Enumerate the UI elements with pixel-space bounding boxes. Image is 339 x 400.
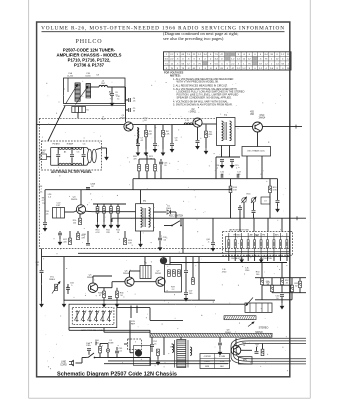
- feed drop 2: [146, 171, 148, 179]
- Q3 emitter drop to osc coil: [257, 132, 259, 147]
- R50 lower lead: [261, 285, 263, 300]
- stub into connector strip: [149, 330, 151, 333]
- resistor R34: [116, 291, 119, 298]
- scan noise speckle: [41, 81, 288, 373]
- resistor R40: [192, 278, 195, 285]
- tuner chassis dashed box left edge: [38, 118, 40, 248]
- capacitor C15: [230, 160, 234, 162]
- R57 lower lead: [157, 356, 159, 359]
- main RF bus wire left segment: [37, 124, 124, 126]
- svg-text:SPEAKER CONDENSER. NO SIGNAL A: SPEAKER CONDENSER. NO SIGNAL APPLIED.: [177, 96, 233, 99]
- resistor R13 lower lead: [117, 213, 119, 222]
- wire exit panel right: [102, 147, 107, 149]
- divider rail 3 to next page: [272, 292, 306, 294]
- ladder vertical 1 lower: [57, 157, 59, 165]
- oscillator coil box L5: [242, 147, 271, 157]
- capacitor C41: [211, 243, 215, 245]
- wire tuner to antenna panel: [48, 106, 65, 141]
- wire L4 to Q1 drop: [107, 86, 125, 88]
- capacitor C52: [150, 345, 154, 347]
- R54 lower lead: [299, 288, 301, 293]
- ground below R3: [144, 150, 147, 156]
- R20 upper lead: [138, 159, 140, 164]
- control box wire to connector: [117, 303, 245, 305]
- switch S1 contact: [94, 357, 96, 359]
- VC1 wiper arrow: [242, 197, 247, 203]
- C62 upper lead: [256, 347, 258, 351]
- network drop 2: [281, 263, 283, 278]
- IF transformer T5 can: [136, 204, 154, 231]
- capacitor C26: [252, 211, 256, 213]
- detector diode D1: [167, 210, 170, 214]
- loop antenna transformer right loop: [92, 149, 96, 163]
- left audio vertical 1: [130, 306, 132, 319]
- svg-text:ANTENNA FILTER PANEL: ANTENNA FILTER PANEL: [51, 170, 92, 174]
- tuner sub box: [72, 107, 86, 113]
- C60 lower lead: [88, 351, 90, 355]
- scan page right edge: [309, 0, 311, 398]
- resistor R22 feed: [154, 164, 157, 171]
- svg-text:S2: S2: [255, 233, 259, 237]
- C33 upper lead: [67, 284, 69, 288]
- S2 contact pair 8: [273, 233, 275, 255]
- power wire drop: [149, 358, 151, 366]
- S2 contact pair 10: [286, 233, 288, 255]
- loop antenna transformer left loop: [88, 149, 92, 163]
- S2 contact pair 2: [234, 233, 236, 255]
- capacitor C3A ladder: [82, 155, 86, 157]
- audio board top rail wire: [78, 252, 290, 254]
- svg-text:GRN: GRN: [205, 366, 210, 368]
- antenna panel top wire: [51, 147, 87, 149]
- bottom long wire 1: [108, 360, 231, 362]
- capacitor C7: [136, 144, 140, 146]
- S2 lead down 2: [234, 255, 236, 262]
- Q8 collector wire: [235, 338, 237, 345]
- ladder vertical 1 upper: [57, 148, 59, 154]
- Q2 emitter drop: [197, 127, 199, 140]
- wire Q5 to Q6: [98, 287, 112, 289]
- C61 lower lead: [116, 354, 118, 358]
- wire C41 drop: [212, 218, 214, 242]
- wire T4 area down to B+ bus: [215, 157, 217, 179]
- ground below C25: [58, 239, 61, 245]
- resistor R51: [271, 285, 274, 292]
- stereo jack hatched strip: [224, 316, 256, 320]
- capacitor C44: [184, 271, 188, 273]
- wire Q6 to Q7: [134, 281, 156, 283]
- T5 top feed wire: [140, 190, 142, 204]
- C23 lower lead: [160, 165, 162, 179]
- S2 contact pair 9: [279, 233, 281, 255]
- divider rail 2: [262, 284, 292, 286]
- audio ground bus wire: [64, 299, 215, 301]
- capacitor C31: [40, 271, 44, 273]
- S2 lead down 5: [267, 255, 269, 262]
- capacitor C14: [220, 160, 224, 162]
- resistor R37 inside block: [173, 270, 176, 277]
- ground below C47: [184, 295, 187, 301]
- C27 upper lead: [239, 205, 241, 207]
- variable capacitor C1A rotor arrow: [66, 85, 78, 105]
- resistor R36 inside block: [168, 270, 171, 277]
- left T7 area drop: [151, 337, 153, 344]
- T7 primary side loops: [172, 344, 174, 352]
- control pot 2: [81, 310, 86, 322]
- lamp stem: [163, 256, 165, 259]
- resistor R22: [69, 238, 72, 245]
- ground below R34: [115, 301, 118, 307]
- title underline: [42, 31, 285, 33]
- R24 upper lead: [124, 231, 126, 238]
- resistor R54: [299, 281, 302, 288]
- ladder vertical 3 lower: [83, 157, 85, 165]
- C28 lower lead: [277, 203, 279, 206]
- resistor R10 bias network: [96, 207, 99, 214]
- osc coil left lead down: [246, 156, 248, 179]
- transistor Q8 power regulator: [231, 346, 241, 356]
- line cord riser: [81, 358, 83, 364]
- T7 left lead wire: [163, 337, 165, 355]
- R4 lower lead: [162, 137, 164, 150]
- wire R22 drop: [69, 231, 71, 238]
- T4 secondary winding: [230, 121, 232, 141]
- wire Q4 to T5: [92, 211, 136, 213]
- AGC switch wire: [164, 225, 172, 227]
- R40 upper lead: [192, 257, 194, 278]
- bias drop 2: [103, 204, 105, 207]
- line cord wire: [76, 362, 83, 364]
- Q6 to T6 wire: [130, 270, 141, 272]
- ground below T5: [139, 241, 142, 247]
- wire drop C9: [171, 125, 173, 143]
- wire S1 to fuse: [95, 357, 109, 359]
- T7 top lead: [180, 337, 182, 339]
- ground below C11: [196, 143, 199, 149]
- transistor Q4 second converter: [76, 205, 85, 214]
- control panel solid box: [69, 304, 117, 327]
- tuner chassis dashed box top edge: [39, 117, 216, 119]
- S2 inner frame: [226, 237, 290, 252]
- svg-text:OSC TRANS COIL: OSC TRANS COIL: [247, 149, 266, 152]
- network drop 1: [261, 263, 263, 278]
- gang inner wire: [67, 78, 69, 92]
- S2 lead down 3: [247, 255, 249, 262]
- svg-text:7%: 7%: [42, 203, 45, 205]
- resistor R19: [269, 186, 272, 193]
- resistor R11 bias network: [103, 207, 106, 214]
- transistor Q3 IF amp: [253, 122, 263, 132]
- C22 inner lines: [57, 208, 61, 219]
- capacitor C36: [108, 297, 112, 299]
- diode output wire: [170, 211, 176, 213]
- R33 upper lead: [103, 288, 105, 291]
- Q4 collector wire: [80, 190, 82, 205]
- transistor Q5 audio driver: [88, 283, 98, 293]
- ground below C64: [218, 349, 221, 355]
- svg-text:7.5: 7.5: [117, 98, 120, 100]
- capacitor C30: [86, 243, 90, 245]
- ground below C14: [220, 162, 223, 168]
- resistor R18: [229, 186, 232, 193]
- volume pot R30: [55, 284, 58, 291]
- R34 lower lead: [116, 298, 118, 301]
- drop R19 lower: [269, 193, 271, 219]
- T4 core lines: [225, 122, 227, 140]
- svg-text:Schematic Diagram P2507 Code 1: Schematic Diagram P2507 Code 12N Chassis: [57, 371, 177, 377]
- wire drop C5A: [111, 87, 113, 93]
- tuner sub box stripes: [75, 107, 82, 113]
- S2 lead down 8: [286, 255, 288, 262]
- antenna coil L7 hanging loops top: [73, 148, 82, 150]
- divider rail 1 to next page: [255, 277, 306, 279]
- ladder vertical 2 lower: [71, 157, 73, 165]
- svg-text:8 OHM: 8 OHM: [219, 356, 225, 358]
- second bottom wire: [104, 331, 150, 333]
- tuning coil column 2 laminated: [86, 84, 91, 98]
- C23 upper lead: [160, 159, 162, 161]
- S2 lead down 6: [273, 255, 275, 262]
- R53 upper lead: [291, 278, 293, 286]
- audio board second rail wire: [42, 256, 290, 258]
- S2 contact pair 4: [247, 233, 249, 255]
- transistor Q2 converter: [193, 118, 202, 127]
- svg-text:250: 250: [73, 222, 76, 224]
- ground below C9: [170, 146, 173, 152]
- svg-text:4.7K: 4.7K: [95, 232, 100, 234]
- capacitor C61: [115, 351, 119, 353]
- power wire to T7 area: [108, 357, 150, 359]
- AGC switch blade: [172, 221, 180, 226]
- R22 upper lead: [154, 159, 156, 164]
- resistor R21 feed: [146, 164, 149, 171]
- tick on AGC bus exit: [296, 216, 298, 220]
- capacitor C28: [276, 201, 280, 203]
- wire drop C8: [154, 125, 156, 143]
- drop R19 upper: [269, 179, 271, 186]
- T5 primary winding: [141, 208, 143, 228]
- connector block J1: [245, 303, 272, 312]
- ground below R10: [96, 222, 99, 228]
- ground below R33: [102, 301, 105, 307]
- S2 contact pair 5: [254, 233, 256, 255]
- drop R18 upper: [230, 179, 232, 186]
- VC2 lead down: [253, 202, 255, 210]
- svg-text:1MEG: 1MEG: [49, 279, 55, 281]
- driver transformer T6: [140, 266, 151, 279]
- volume control VC1: [242, 198, 246, 202]
- ground below C28: [276, 206, 279, 212]
- svg-text:3.3K: 3.3K: [273, 189, 278, 191]
- level shift wire: [111, 282, 113, 288]
- right inner drop wire: [277, 179, 279, 200]
- right drop lower: [185, 273, 187, 292]
- capacitor C3 ladder: [70, 155, 74, 157]
- capacitor C28A on bus: [86, 187, 90, 189]
- control wire across: [150, 319, 183, 321]
- ground below R11: [102, 222, 105, 228]
- capacitor C60 line filter: [87, 349, 91, 351]
- left feed wire upper: [41, 249, 43, 271]
- long right drop wire: [198, 257, 200, 301]
- bus drop to switch at x240: [239, 218, 241, 231]
- resistor R53: [291, 285, 294, 292]
- resistor R24: [124, 238, 127, 245]
- coil T3 vertical secondary: [137, 128, 139, 139]
- filter block C22: [53, 208, 65, 219]
- R34 upper lead: [116, 288, 118, 291]
- Q5 collector wire: [92, 276, 94, 283]
- T4 pri lower lead: [221, 146, 223, 158]
- capacitor C33: [66, 288, 70, 290]
- capacitor C2 ladder: [56, 155, 60, 157]
- voltage table grid: [164, 52, 292, 70]
- C7 lower lead: [137, 145, 139, 149]
- bus drop to switch at x268: [267, 218, 269, 231]
- svg-text:HI AMP: HI AMP: [67, 143, 74, 146]
- second IF bus wire: [45, 189, 232, 191]
- svg-text:2N411: 2N411: [190, 112, 197, 114]
- control box wire 2: [117, 307, 150, 309]
- svg-text:4.7: 4.7: [42, 200, 45, 202]
- S2 contact pair 7: [267, 233, 269, 255]
- svg-text:ANT B-STUD: ANT B-STUD: [260, 257, 273, 260]
- bias block B1: [239, 357, 253, 364]
- control panel dashed box: [72, 308, 114, 325]
- output transformer T7 laminated core: [175, 340, 188, 368]
- svg-text:5%: 5%: [40, 192, 43, 194]
- R51 stub: [271, 291, 273, 294]
- C4 stub: [126, 99, 129, 101]
- S2 output bus wire: [170, 262, 287, 264]
- ground rail arrow: [62, 301, 65, 307]
- resistor R60: [99, 346, 102, 353]
- control box bottom stub: [68, 328, 70, 331]
- ground below R12: [109, 222, 112, 228]
- svg-text:2.2K: 2.2K: [165, 133, 170, 135]
- T3 sec lower lead: [136, 139, 138, 143]
- ground rail drop: [63, 257, 65, 301]
- R33 lower lead: [103, 298, 105, 301]
- svg-text:2N241: 2N241: [155, 273, 162, 275]
- ground below R4: [161, 150, 164, 156]
- antenna coil L6 hanging loops top: [59, 148, 71, 150]
- switch S1 blade: [88, 353, 94, 358]
- feed stub up: [146, 155, 148, 159]
- speaker stub: [130, 352, 134, 354]
- Q5 collector to node: [93, 275, 112, 277]
- wire gang to dashed box: [77, 113, 79, 119]
- capacitor C5A: [110, 94, 114, 96]
- capacitor C17: [237, 174, 239, 178]
- T4 primary winding: [222, 121, 224, 141]
- T5 bottom lead: [140, 231, 142, 241]
- R60 lower lead: [99, 353, 101, 358]
- R30 wiper arrow: [52, 282, 60, 294]
- svg-text:BASS TREB BAL LOUD: BASS TREB BAL LOUD: [81, 329, 103, 332]
- power stub: [95, 341, 97, 345]
- coil box L9: [261, 197, 270, 204]
- wire drop C7: [137, 128, 139, 143]
- svg-text:2N301: 2N301: [225, 332, 232, 334]
- svg-text:OSC A-STUD: OSC A-STUD: [231, 257, 244, 260]
- S2 contact pair 1: [228, 233, 230, 255]
- capacitor C23: [159, 162, 163, 164]
- AGC bus left stub: [111, 218, 113, 222]
- wire loop to next page outer: [231, 338, 306, 364]
- svg-text:STEREO: STEREO: [259, 327, 269, 330]
- resistor R57: [157, 349, 160, 356]
- ground outside panel: [105, 154, 108, 160]
- ground below C5A: [110, 100, 113, 106]
- C33 lower lead: [67, 289, 69, 294]
- svg-text:5.6: 5.6: [77, 151, 80, 153]
- ground below C15: [230, 162, 233, 168]
- left feed wire lower: [41, 273, 43, 301]
- wire Q3 collector to next page: [263, 126, 302, 128]
- bottom wire under control box: [69, 329, 150, 331]
- feed top wire: [139, 158, 155, 160]
- resistor R62: [261, 349, 264, 356]
- ground left feed: [40, 301, 43, 307]
- variable capacitor C1B rotor arrow: [76, 86, 89, 105]
- ground below C8: [153, 146, 156, 152]
- svg-text:P/S: P/S: [243, 360, 247, 362]
- S2 lead down 7: [279, 255, 281, 262]
- S2 lead down 1: [228, 255, 230, 262]
- long AGC bus wire: [112, 217, 306, 219]
- wire to J1 diagonal: [246, 298, 253, 306]
- resistor R38 inside block: [178, 270, 181, 277]
- resistor R25: [77, 233, 80, 240]
- bottom long wire 2: [104, 363, 228, 365]
- svg-text:2. ALL RESISTANCES MEASURED IN: 2. ALL RESISTANCES MEASURED IN CIRCUIT.: [173, 84, 228, 87]
- R54 upper lead: [299, 278, 301, 282]
- output stage block: [165, 265, 182, 293]
- antenna filter panel dashed box: [42, 141, 102, 170]
- svg-text:CORD: CORD: [60, 365, 67, 367]
- control pot 3: [87, 310, 92, 322]
- S2 contact pair 3: [241, 233, 243, 255]
- ladder vertical 2 upper: [71, 148, 73, 154]
- left audio vertical 2: [136, 306, 138, 314]
- speaker terminal strip TS1: [200, 354, 230, 369]
- AGC switch pivot dot: [171, 225, 173, 227]
- resistor R52: [281, 278, 284, 285]
- R52 lower lead: [281, 285, 283, 293]
- svg-text:NOTES:: NOTES:: [170, 74, 181, 78]
- svg-text:A5: A5: [64, 150, 66, 153]
- C5A lower lead: [111, 96, 113, 100]
- main border frame: [37, 22, 290, 377]
- capacitor C9: [170, 144, 174, 146]
- resistor R6: [205, 131, 208, 138]
- Q8 emitter wire: [241, 349, 252, 351]
- C32 upper lead: [159, 231, 161, 237]
- tuner bottom double wire: [64, 104, 126, 106]
- divider rail 4: [255, 299, 292, 301]
- feed drop 1: [138, 171, 140, 179]
- R9 upper lead: [79, 214, 81, 218]
- resistor R10 lower lead: [97, 213, 99, 222]
- line cord plug P1: [72, 360, 74, 366]
- bias sub-bus wire: [93, 203, 126, 205]
- pilot lamp I1: [160, 257, 167, 264]
- ground below C21: [43, 225, 46, 231]
- resistor R13 bias network: [117, 207, 120, 214]
- T6 winding lines: [143, 266, 148, 279]
- svg-text:AGC SWITCH: AGC SWITCH: [169, 215, 184, 218]
